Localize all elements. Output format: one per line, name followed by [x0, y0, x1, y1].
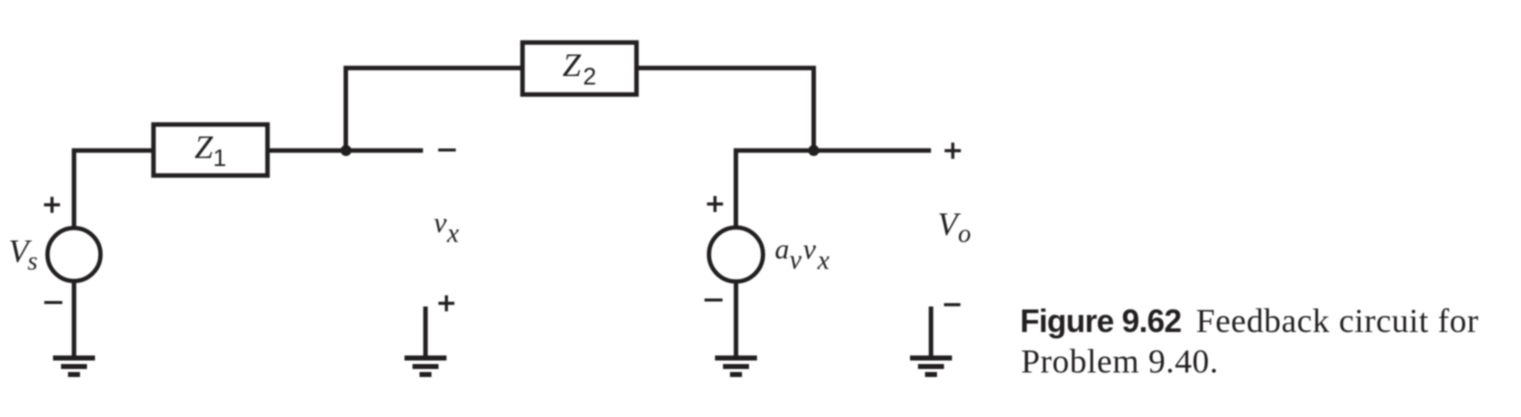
- minus sign of Vs: [44, 301, 62, 304]
- wire dependent source bottom to ground: [734, 280, 739, 357]
- svg-text:Problem 9.40.: Problem 9.40.: [1021, 343, 1219, 380]
- svg-text:v: v: [790, 245, 802, 275]
- dependent source av*vx: [709, 228, 763, 282]
- wire node vx up to Z2: [346, 68, 523, 152]
- wire Z1 to node vx: [268, 148, 423, 153]
- minus sign at node vx: [438, 148, 456, 151]
- plus sign of dependent source: [707, 196, 723, 212]
- svg-text:s: s: [28, 247, 38, 276]
- ground reference for Vo: [929, 307, 934, 358]
- ground reference for vx: [423, 307, 428, 358]
- ground below Vs: [53, 358, 95, 375]
- voltage source Vs: [48, 228, 101, 281]
- output node junction dot: [808, 145, 819, 156]
- wire Z2 to corner and down to output node: [635, 68, 814, 149]
- svg-text:Figure 9.62: Figure 9.62: [1020, 303, 1181, 339]
- node vx junction dot: [341, 145, 352, 156]
- caption Figure 9.62: [1020, 303, 1479, 380]
- svg-text:2: 2: [583, 64, 596, 91]
- svg-text:x: x: [446, 218, 459, 248]
- label Vs: [9, 234, 38, 276]
- svg-text:v: v: [803, 234, 816, 266]
- label vx: [434, 207, 459, 248]
- svg-text:x: x: [817, 245, 830, 275]
- wire Vs bottom to ground: [72, 280, 77, 357]
- label Vo: [938, 207, 972, 248]
- svg-text:v: v: [434, 207, 447, 239]
- plus sign of Vs: [44, 197, 60, 213]
- svg-text:a: a: [775, 234, 790, 266]
- wire Vs top to Z1: [74, 151, 156, 230]
- ground below dependent source: [715, 358, 757, 375]
- svg-text:1: 1: [213, 145, 226, 172]
- plus sign at output terminal: [945, 143, 961, 159]
- minus sign of dependent source: [705, 298, 723, 301]
- plus sign at vx ground: [438, 295, 454, 311]
- resistor Z2: [523, 43, 637, 95]
- wire dependent source to output node to output terminal: [736, 151, 931, 230]
- svg-text:Z: Z: [563, 48, 582, 84]
- minus sign at output ground: [944, 303, 960, 306]
- svg-text:o: o: [958, 219, 971, 248]
- svg-text:Z: Z: [195, 130, 214, 166]
- resistor Z1: [154, 125, 268, 176]
- svg-text:Feedback circuit for: Feedback circuit for: [1196, 303, 1479, 340]
- label av vx: [775, 234, 830, 276]
